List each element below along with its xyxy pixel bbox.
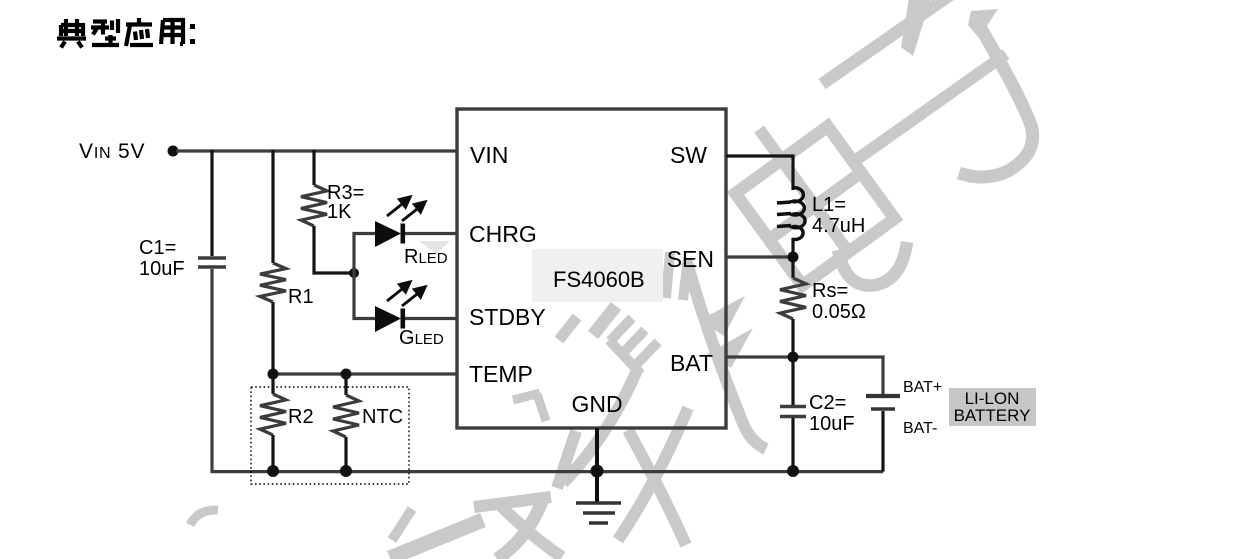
wire: GND stem xyxy=(595,428,599,502)
wire: NTC lead xyxy=(344,374,347,395)
watermark faint tip under RLED xyxy=(419,241,450,254)
svg-text:CHRG: CHRG xyxy=(469,221,537,247)
svg-text:10uF: 10uF xyxy=(809,413,855,435)
svg-text:VIN: VIN xyxy=(470,142,508,168)
wire: junction up to RLED xyxy=(354,234,375,274)
svg-text:GND: GND xyxy=(571,391,622,417)
svg-text:C2=: C2= xyxy=(809,392,846,414)
wire: R3 branch top xyxy=(312,150,315,186)
node TEMP-R2 dot xyxy=(268,369,279,380)
node TEMP-NTC dot xyxy=(341,369,352,380)
watermark char dian (box diamond) xyxy=(713,96,898,290)
wire: R1 branch top xyxy=(271,150,274,264)
watermark char zi top-right xyxy=(822,0,1033,177)
svg-text:GLED: GLED xyxy=(399,327,444,349)
resistor Rs xyxy=(780,278,806,319)
wire: TEMP wire xyxy=(273,372,457,375)
LED RLED arrows xyxy=(387,197,425,221)
wire: RLED to CHRG pin xyxy=(405,232,457,235)
node R2-bus dot xyxy=(267,465,279,477)
wire: BAT pin to battery xyxy=(726,357,883,394)
wire: SEN pin xyxy=(726,255,793,258)
watermark xyxy=(190,0,1033,559)
watermark char bottom-left partial xyxy=(190,497,562,559)
wire: R1 to TEMP junction xyxy=(271,302,274,374)
svg-text:STDBY: STDBY xyxy=(469,304,546,330)
resistor NTC xyxy=(333,395,359,437)
IC label backing xyxy=(532,249,663,302)
capacitor C2 xyxy=(780,407,806,417)
svg-text:10uF: 10uF xyxy=(139,258,185,280)
resistor R1 xyxy=(260,263,286,302)
char 型 xyxy=(91,19,119,45)
title 典型应用： xyxy=(57,18,195,48)
LED GLED arrows xyxy=(387,282,425,306)
node C2-bus dot xyxy=(787,465,799,477)
label box LI-LON BATTERY xyxy=(949,388,1036,426)
wire: top rail VIN node to IC xyxy=(176,149,457,152)
svg-text:L1=: L1= xyxy=(812,194,846,216)
node LED junction dot xyxy=(349,268,359,278)
wire: Rs to BAT node xyxy=(791,319,794,357)
LED GLED diode xyxy=(375,306,405,332)
wire: junction down to GLED xyxy=(354,273,375,319)
capacitor C1 xyxy=(198,258,226,267)
wire: L1 to SEN node xyxy=(791,238,794,278)
char 典 xyxy=(57,19,86,48)
wire: C1 to bottom bus xyxy=(212,269,883,472)
node BAT dot xyxy=(788,352,799,363)
svg-text:4.7uH: 4.7uH xyxy=(812,215,865,237)
wire: R2 lead xyxy=(271,374,274,394)
node VIN dot xyxy=(168,146,179,157)
watermark char wei (center) xyxy=(513,252,766,545)
wire: R3 bottom to LED junction xyxy=(314,226,353,273)
wire: BAT node to C2 xyxy=(791,357,794,405)
svg-text:BAT: BAT xyxy=(670,350,713,376)
svg-text:BATTERY: BATTERY xyxy=(954,406,1031,425)
svg-text:VIN 5V: VIN 5V xyxy=(79,140,145,163)
svg-text:TEMP: TEMP xyxy=(469,361,533,387)
dotted box R2/NTC xyxy=(251,387,409,484)
IC U1 FS4060B box xyxy=(457,109,726,428)
svg-text:C1=: C1= xyxy=(139,237,176,259)
svg-text:RLED: RLED xyxy=(404,246,448,268)
node GND-bus dot xyxy=(591,465,604,478)
wire: battery minus to bus xyxy=(881,411,884,472)
svg-text:BAT-: BAT- xyxy=(903,420,937,437)
svg-text:SEN: SEN xyxy=(667,246,714,272)
battery BT1 plates xyxy=(866,396,900,409)
inductor L1 xyxy=(777,188,805,240)
watermark dian tail xyxy=(838,242,907,286)
ground symbol xyxy=(576,503,621,523)
resistor R3 xyxy=(301,185,327,226)
wire: C2 to bus xyxy=(791,418,794,470)
wire: SW to L1 xyxy=(726,156,793,190)
resistor R2 xyxy=(260,394,286,435)
char 用 xyxy=(161,20,183,44)
wire: NTC to bus xyxy=(344,437,347,470)
svg-text:BAT+: BAT+ xyxy=(903,379,942,396)
svg-text:R1: R1 xyxy=(288,286,314,308)
wire: C1 branch vertical xyxy=(210,150,213,257)
svg-text:NTC: NTC xyxy=(362,406,403,428)
svg-text:Rs=: Rs= xyxy=(812,280,848,302)
LED RLED diode xyxy=(375,221,405,247)
wire: GLED to STDBY pin xyxy=(405,317,457,320)
char 应 xyxy=(126,18,153,46)
node SEN dot xyxy=(788,252,799,263)
svg-text:1K: 1K xyxy=(327,201,352,223)
svg-text:SW: SW xyxy=(670,142,707,168)
svg-text:R2: R2 xyxy=(288,406,314,428)
node NTC-bus dot xyxy=(340,465,352,477)
svg-text:FS4060B: FS4060B xyxy=(553,267,645,292)
wire: R2 to bus xyxy=(271,435,274,470)
svg-text:0.05Ω: 0.05Ω xyxy=(812,301,866,323)
char fullwidth colon xyxy=(190,24,195,44)
